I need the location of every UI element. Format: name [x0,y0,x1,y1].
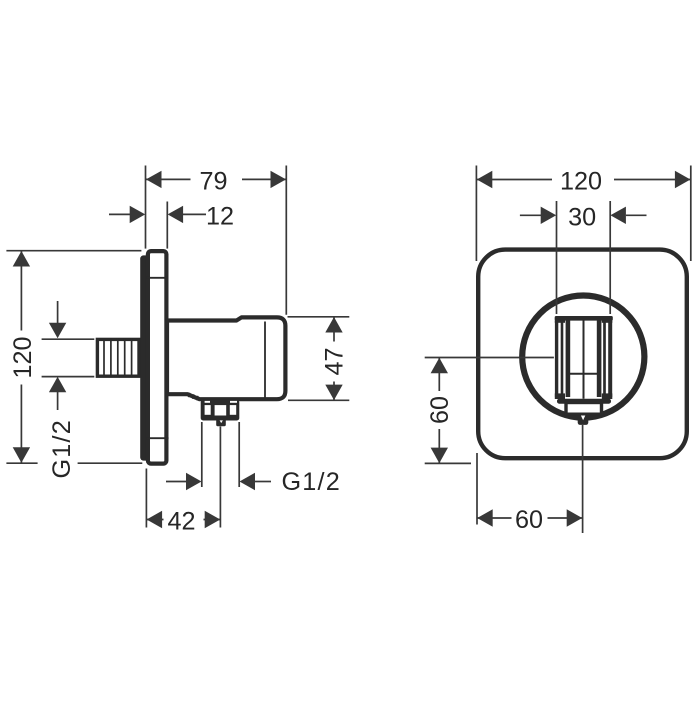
porter circle [522,296,644,418]
dimension 120 (top) [477,167,691,196]
svg-text:60: 60 [515,506,543,534]
arm inner face line [264,322,266,398]
svg-text:G1/2: G1/2 [48,419,76,478]
arm underside ticks [189,393,199,400]
divider [570,373,598,375]
lower bands [555,393,565,399]
svg-text:42: 42 [167,507,195,535]
outlet nipple [216,420,226,426]
svg-text:120: 120 [9,336,37,378]
top bar [555,316,613,321]
bottom tab [578,415,589,425]
collar [566,403,602,415]
svg-text:47: 47 [321,347,349,375]
dimension 60 (left of front view, vertical) [425,358,471,464]
svg-text:12: 12 [206,203,234,231]
svg-text:30: 30 [568,204,596,232]
front plate (rounded square) [478,250,687,459]
dimension G1/2 (bottom right of left view) [166,422,341,496]
plate inner line top [146,277,168,279]
vertical rim lines [557,318,611,399]
dim: extension line x=145.5 (79/12 left) [145,166,147,249]
svg-text:79: 79 [199,168,227,196]
dimension 47 (vertical) [288,317,350,401]
dim: extension x=610.2 (30 right) [609,201,611,314]
dimension G1/2 (left, vertical) [38,301,95,479]
dimension 30 [520,204,647,232]
svg-text:120: 120 [560,168,602,196]
dimension 12 [109,203,234,231]
holder arm (side view) [167,317,285,399]
dim: extension line x=286.3 (79 right) [285,166,287,315]
dimension 42 [146,427,220,536]
wall plate (side view) [148,251,167,464]
porter front bulge (side) [140,255,152,460]
supply pipe (hatched) [97,338,139,378]
under-bands below top bar [555,320,565,322]
dim: extension line x=167.3 (12 right) [166,202,168,249]
svg-text:60: 60 [426,396,454,424]
hose nut [201,400,240,421]
60-left top extension / centre line [425,357,554,359]
holder (front view) [555,316,613,425]
dim: extension x=690.8 (120 right) [690,166,692,262]
bottom bar [557,399,611,404]
dimension 120 (left, vertical) [6,251,142,464]
plate inner line bottom [146,437,168,439]
dimension 79 [146,167,286,196]
dimension 60 (bottom of front view) [477,425,583,534]
dim: extension x=476.4 (120 left) [475,166,477,262]
svg-text:G1/2: G1/2 [282,468,341,496]
dim: extension x=556.5 (30 left) [556,201,558,314]
